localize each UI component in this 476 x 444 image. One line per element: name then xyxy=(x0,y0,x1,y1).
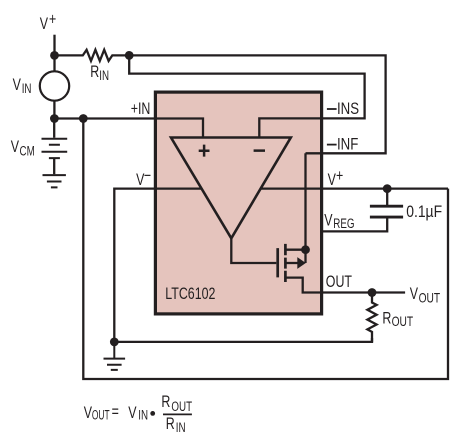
svg-text:OUT: OUT xyxy=(171,398,192,414)
svg-text:=: = xyxy=(112,403,119,421)
svg-text:OUT: OUT xyxy=(326,273,352,291)
svg-text:+: + xyxy=(49,11,56,29)
svg-text:INF: INF xyxy=(337,135,358,154)
svg-text:V: V xyxy=(40,15,48,33)
svg-text:IN: IN xyxy=(99,67,109,83)
svg-text:+IN: +IN xyxy=(131,100,151,118)
svg-text:OUT: OUT xyxy=(92,408,110,423)
svg-text:IN: IN xyxy=(176,419,186,435)
svg-text:CM: CM xyxy=(20,143,35,159)
svg-text:INS: INS xyxy=(337,99,359,118)
svg-text:−: − xyxy=(144,167,151,185)
svg-text:V: V xyxy=(13,76,21,94)
svg-text:R: R xyxy=(161,393,170,411)
svg-text:IN: IN xyxy=(138,407,148,423)
svg-text:V: V xyxy=(84,404,92,422)
svg-text:R: R xyxy=(90,63,99,81)
svg-text:V: V xyxy=(410,285,418,303)
svg-text:R: R xyxy=(166,415,175,433)
svg-text:LTC6102: LTC6102 xyxy=(165,285,215,303)
svg-text:IN: IN xyxy=(22,80,32,96)
svg-text:V: V xyxy=(128,404,136,422)
svg-text:OUT: OUT xyxy=(419,290,441,306)
svg-text:R: R xyxy=(382,310,391,328)
svg-text:V: V xyxy=(328,171,336,189)
svg-text:OUT: OUT xyxy=(392,313,414,329)
svg-text:0.1µF: 0.1µF xyxy=(406,203,442,222)
svg-text:REG: REG xyxy=(333,215,354,231)
svg-text:V: V xyxy=(324,212,332,230)
svg-text:+: + xyxy=(336,167,343,185)
svg-text:V: V xyxy=(11,138,19,156)
